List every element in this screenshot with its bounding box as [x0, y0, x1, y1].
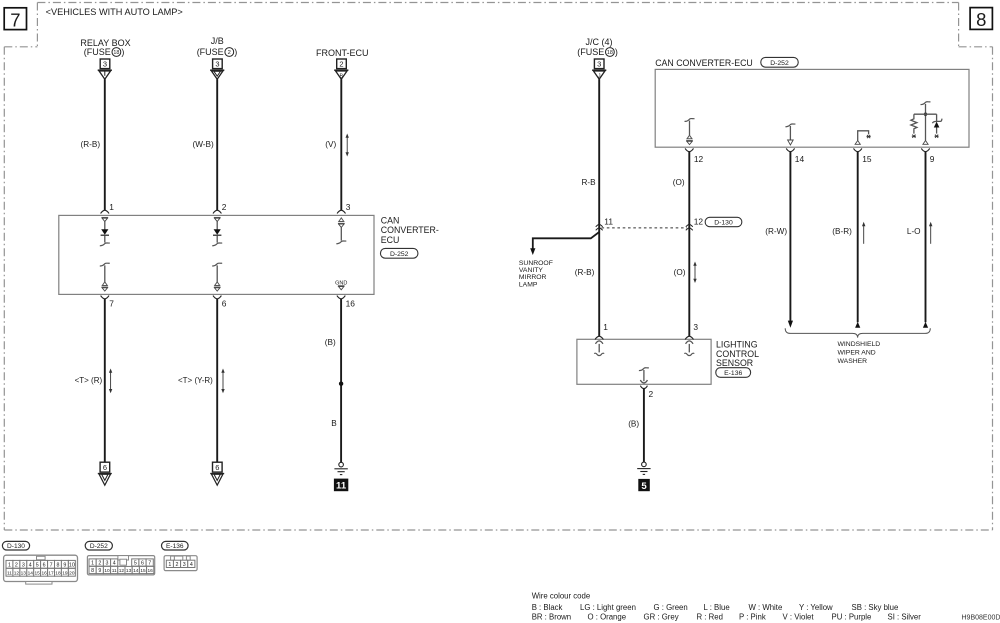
svg-text:J/B: J/B — [211, 36, 224, 46]
svg-text:16: 16 — [346, 298, 356, 308]
dashed link joint 11 to joint 12 — [602, 227, 688, 229]
svg-text:4: 4 — [29, 562, 32, 568]
svg-text:WIPER AND: WIPER AND — [838, 349, 876, 356]
relay box connector triangle T — [98, 70, 112, 79]
svg-text:R : Red: R : Red — [697, 612, 723, 621]
joint 12 on wire (O) — [686, 217, 704, 231]
internal circuit pin 7: lead and plug pair — [100, 263, 110, 291]
wire (B-R) pin 15 to windshield wiper and washer — [832, 152, 860, 328]
svg-text:SENSOR: SENSOR — [716, 358, 753, 368]
ground id box 5 — [638, 479, 650, 492]
svg-text:(W-B): (W-B) — [193, 140, 214, 149]
svg-text:1: 1 — [603, 322, 608, 332]
svg-text:): ) — [615, 47, 618, 57]
windshield wiper and washer label — [838, 341, 881, 365]
svg-text:3: 3 — [693, 322, 698, 332]
wire colour code legend — [532, 592, 922, 622]
svg-text:E-136: E-136 — [724, 370, 742, 377]
svg-text:18: 18 — [607, 50, 613, 56]
svg-text:5: 5 — [134, 561, 137, 567]
svg-text:7: 7 — [148, 561, 151, 567]
svg-text:6: 6 — [215, 463, 219, 472]
pin 3 fork at CAN converter ECU — [337, 202, 351, 214]
svg-text:VANITY: VANITY — [519, 267, 544, 274]
up arrow on wire (B-R) — [862, 222, 865, 244]
pin 6 fork below unit — [213, 296, 227, 309]
svg-text:16: 16 — [148, 568, 154, 574]
svg-text:2: 2 — [15, 562, 18, 568]
svg-text:3: 3 — [106, 561, 109, 567]
svg-text:3: 3 — [103, 60, 107, 69]
svg-text:(R-B): (R-B) — [575, 268, 595, 277]
svg-text:(FUSE: (FUSE — [577, 47, 604, 57]
power source J/C(4) (FUSE 18) — [577, 37, 618, 57]
svg-text:D-252: D-252 — [770, 60, 789, 67]
svg-text:19: 19 — [62, 570, 68, 576]
svg-text:7: 7 — [10, 9, 20, 30]
svg-text:8: 8 — [56, 562, 59, 568]
svg-text:2: 2 — [228, 50, 231, 56]
svg-text:(B): (B) — [325, 338, 336, 347]
J/B connector double triangle — [210, 70, 224, 79]
svg-text:2: 2 — [649, 389, 654, 399]
splice junction on wire B — [339, 382, 343, 386]
svg-text:D-252: D-252 — [390, 251, 409, 258]
svg-text:SB : Sky blue: SB : Sky blue — [852, 603, 899, 612]
pin 2 fork below sensor — [640, 386, 653, 400]
svg-text:G : Green: G : Green — [654, 603, 688, 612]
svg-text:<T> (Y-R): <T> (Y-R) — [178, 376, 213, 385]
bidirectional arrow on wire 6 — [221, 369, 224, 394]
pin 16 fork below unit — [337, 296, 355, 309]
svg-text:L : Blue: L : Blue — [704, 603, 730, 612]
svg-text:(R-B): (R-B) — [81, 140, 101, 149]
svg-text:16: 16 — [41, 570, 47, 576]
svg-text:4: 4 — [190, 562, 193, 568]
up arrow on wire L-O — [929, 222, 932, 244]
connector code pill D-252 (left unit) — [381, 248, 418, 258]
body ground no.11 — [334, 462, 347, 474]
svg-text:(FUSE: (FUSE — [84, 47, 111, 57]
svg-text:18: 18 — [55, 570, 61, 576]
svg-text:FRONT-ECU: FRONT-ECU — [316, 48, 369, 58]
svg-text:3: 3 — [215, 60, 219, 69]
wire R-B J/C to lighting control sensor pin 1 — [575, 79, 599, 336]
svg-text:13: 13 — [21, 570, 27, 576]
wire L-O pin 9 to windshield wiper and washer — [907, 152, 928, 328]
page number box 7 — [4, 8, 26, 31]
svg-text:2: 2 — [176, 562, 179, 568]
svg-text:6: 6 — [43, 562, 46, 568]
svg-text:11: 11 — [112, 568, 117, 574]
svg-text:1: 1 — [168, 562, 171, 568]
wire (O) pin 12 to lighting control sensor pin 3 — [673, 152, 690, 337]
connector view D-252 — [87, 556, 154, 575]
svg-text:11: 11 — [604, 217, 613, 227]
svg-text:20: 20 — [69, 570, 75, 576]
connector label pill D-130 — [2, 541, 29, 550]
pin 3 fork at sensor — [685, 322, 698, 340]
svg-text:9: 9 — [930, 154, 935, 164]
connector view D-130 — [4, 555, 78, 584]
sensor internal pin 2 — [639, 368, 649, 383]
svg-text:5: 5 — [36, 562, 39, 568]
svg-text:WINDSHIELD: WINDSHIELD — [838, 341, 881, 348]
wire (B) sensor pin 2 to ground — [628, 389, 644, 462]
svg-text:3: 3 — [346, 202, 351, 212]
pin 9 fork below unit — [921, 148, 935, 163]
sunroof vanity mirror lamp label — [519, 260, 553, 289]
svg-text:17: 17 — [48, 570, 54, 576]
pin 12 fork below unit — [685, 148, 703, 163]
body ground no.5 — [637, 462, 650, 474]
svg-text:<T> (R): <T> (R) — [75, 376, 103, 385]
wire (V) FRONT-ECU to pin 3 — [325, 79, 341, 210]
svg-text:7: 7 — [50, 562, 53, 568]
svg-text:): ) — [121, 47, 124, 57]
ground id box 11 — [334, 479, 348, 492]
branch wire to sunroof vanity mirror lamp — [530, 232, 599, 255]
connector code pill E-136 — [716, 368, 751, 378]
LIGHTING CONTROL SENSOR unit box — [577, 339, 711, 384]
svg-text:7: 7 — [109, 298, 114, 308]
svg-text:18: 18 — [113, 50, 119, 56]
svg-text:(O): (O) — [673, 178, 685, 187]
svg-text:6: 6 — [103, 463, 107, 472]
FRONT-ECU connector no.2 — [337, 59, 347, 69]
svg-text:<VEHICLES WITH AUTO LAMP>: <VEHICLES WITH AUTO LAMP> — [46, 7, 183, 17]
svg-text:2: 2 — [222, 202, 227, 212]
svg-text:9: 9 — [63, 562, 66, 568]
svg-text:8: 8 — [976, 9, 986, 30]
pin 1 fork at sensor — [595, 322, 608, 340]
CAN CONVERTER-ECU label (left) — [381, 216, 439, 245]
svg-text:10: 10 — [104, 568, 110, 574]
svg-text:CONVERTER-: CONVERTER- — [381, 225, 439, 235]
connector label pill D-252 — [85, 541, 112, 550]
svg-text:LAMP: LAMP — [519, 281, 538, 288]
internal circuit pin 14: lead with open arrow — [785, 124, 795, 145]
bidirectional signal arrow on (V) wire — [346, 134, 349, 157]
svg-text:O : Orange: O : Orange — [588, 612, 627, 621]
svg-text:J/C (4): J/C (4) — [586, 37, 613, 47]
wire (W-B) J/B to pin 2 — [193, 79, 218, 210]
connector no.6 end of wire 7 — [98, 462, 112, 485]
svg-text:): ) — [234, 47, 237, 57]
power source J/B (FUSE 2) — [197, 36, 238, 57]
wire <T>(Y-R) pin 6 to connector — [178, 299, 217, 462]
CAN CONVERTER-ECU label (right) — [655, 58, 753, 68]
svg-text:6: 6 — [222, 298, 227, 308]
CAN CONVERTER-ECU unit box (right) — [655, 69, 969, 147]
connector view E-136 — [164, 556, 197, 571]
page number box 8 — [970, 8, 992, 31]
internal circuit pin 12: lead and plug pair — [685, 119, 695, 145]
pin 14 fork below unit — [786, 148, 804, 163]
brace windshield wiper and washer — [785, 328, 930, 337]
svg-text:B : Black: B : Black — [532, 603, 563, 612]
svg-text:D-130: D-130 — [7, 543, 25, 550]
svg-text:4: 4 — [113, 561, 116, 567]
title VEHICLES WITH AUTO LAMP — [46, 7, 183, 17]
svg-text:H9B08E00DC: H9B08E00DC — [962, 615, 1000, 622]
sensor internal pin 3 — [684, 341, 694, 356]
connector no.6 end of wire 6 — [210, 462, 224, 485]
svg-text:CAN: CAN — [381, 216, 400, 226]
svg-text:3: 3 — [22, 562, 25, 568]
wire <T>(R) pin 7 to connector — [75, 299, 105, 462]
svg-text:W : White: W : White — [749, 603, 783, 612]
svg-text:12: 12 — [694, 154, 704, 164]
svg-text:P : Pink: P : Pink — [739, 612, 766, 621]
svg-text:(O): (O) — [674, 268, 686, 277]
drawing code — [962, 615, 1000, 622]
svg-text:SI : Silver: SI : Silver — [888, 612, 922, 621]
svg-text:B: B — [339, 73, 343, 79]
svg-text:D-130: D-130 — [714, 220, 733, 227]
svg-text:WASHER: WASHER — [838, 358, 868, 365]
svg-text:B: B — [331, 419, 337, 428]
internal circuit pin 3: plug pair and lead — [336, 218, 346, 244]
pin 2 fork at CAN converter ECU — [213, 202, 227, 214]
svg-text:(B-R): (B-R) — [832, 227, 852, 236]
svg-text:9: 9 — [98, 568, 101, 574]
svg-text:(V): (V) — [325, 140, 336, 149]
svg-text:12: 12 — [119, 568, 125, 574]
svg-text:BR : Brown: BR : Brown — [532, 612, 571, 621]
svg-text:PU : Purple: PU : Purple — [832, 612, 872, 621]
internal circuit pin 1: socket, diode, lead — [100, 218, 110, 246]
svg-text:E-136: E-136 — [166, 543, 184, 550]
svg-text:5: 5 — [641, 481, 647, 492]
svg-text:1: 1 — [91, 561, 94, 567]
svg-text:Y : Yellow: Y : Yellow — [799, 603, 833, 612]
svg-text:15: 15 — [862, 154, 872, 164]
svg-text:8: 8 — [91, 568, 94, 574]
svg-text:15: 15 — [140, 568, 146, 574]
svg-text:(R-W): (R-W) — [765, 227, 787, 236]
J/B connector no.3 — [213, 59, 223, 69]
svg-text:3: 3 — [183, 562, 186, 568]
wire (R-W) pin 14 to windshield wiper and washer — [765, 152, 793, 328]
J/C connector no.3 — [594, 59, 604, 69]
LIGHTING CONTROL SENSOR label — [716, 339, 759, 368]
wire (R-B) relay box to pin 1 — [81, 79, 105, 210]
svg-text:2: 2 — [339, 60, 343, 69]
svg-text:14: 14 — [795, 154, 805, 164]
joint 11 on wire R-B — [596, 217, 614, 231]
connector code pill D-130 at joint 12 — [705, 217, 742, 226]
svg-text:CAN CONVERTER-ECU: CAN CONVERTER-ECU — [655, 58, 753, 68]
svg-text:V : Violet: V : Violet — [783, 612, 815, 621]
svg-text:L-O: L-O — [907, 227, 921, 236]
CAN CONVERTER-ECU unit box (left) — [59, 215, 374, 294]
svg-text:13: 13 — [126, 568, 132, 574]
connector label pill E-136 — [162, 541, 189, 550]
pin 1 fork at CAN converter ECU — [101, 202, 115, 214]
bidirectional arrow on wire 7 — [109, 369, 112, 394]
svg-text:1: 1 — [8, 562, 11, 568]
connector code pill D-252 (right unit) — [761, 57, 798, 67]
sensor internal pin 1 — [594, 341, 604, 356]
power source RELAY BOX (FUSE 18) — [80, 38, 130, 57]
svg-text:14: 14 — [28, 570, 34, 576]
svg-text:12: 12 — [14, 570, 20, 576]
svg-text:6: 6 — [141, 561, 144, 567]
svg-text:GR : Grey: GR : Grey — [644, 612, 679, 621]
svg-text:3: 3 — [597, 60, 601, 69]
svg-text:R-B: R-B — [582, 178, 597, 187]
svg-text:15: 15 — [35, 570, 41, 576]
internal circuit pin 2: socket, diode, lead — [212, 218, 222, 246]
svg-text:SUNROOF: SUNROOF — [519, 260, 553, 267]
svg-text:(B): (B) — [628, 419, 639, 428]
svg-text:11: 11 — [336, 481, 347, 492]
FRONT-ECU header — [316, 48, 369, 58]
svg-text:LG : Light green: LG : Light green — [580, 603, 636, 612]
FRONT-ECU connector triangle B — [334, 70, 348, 79]
svg-text:D-252: D-252 — [90, 543, 108, 550]
internal circuit pin 15: lead to terminal — [855, 131, 871, 145]
wire (B) pin 16 to ground — [325, 299, 341, 462]
svg-text:Wire colour code: Wire colour code — [532, 592, 591, 601]
svg-text:(FUSE: (FUSE — [197, 47, 224, 57]
svg-text:2: 2 — [98, 561, 101, 567]
pin 15 fork below unit — [854, 148, 872, 163]
relay box connector no.3 — [100, 59, 110, 69]
J/C connector triangle J — [592, 70, 606, 79]
svg-text:11: 11 — [7, 570, 12, 576]
pin 7 fork below unit — [101, 296, 115, 309]
svg-text:MIRROR: MIRROR — [519, 274, 547, 281]
internal GND pin 16 — [335, 280, 347, 290]
bidirectional arrow on wire (O) — [693, 262, 696, 284]
svg-text:14: 14 — [133, 568, 139, 574]
svg-text:12: 12 — [694, 217, 704, 227]
svg-text:1: 1 — [109, 202, 114, 212]
svg-text:10: 10 — [69, 562, 75, 568]
svg-text:ECU: ECU — [381, 235, 400, 245]
internal circuit pin 9: resistor and zener diode — [911, 102, 942, 145]
internal circuit pin 6: lead and plug pair — [212, 263, 222, 291]
svg-text:J: J — [598, 73, 601, 79]
